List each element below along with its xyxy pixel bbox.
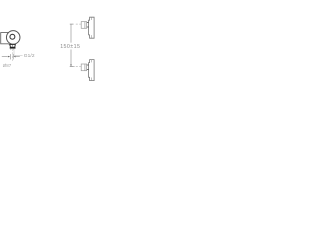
wall bracket rectangle xyxy=(1,33,10,44)
arrow pointing down at bottom centerline xyxy=(70,64,72,66)
stub center mark xyxy=(12,45,14,47)
centerline dashes xyxy=(70,23,74,25)
dimension line left segment xyxy=(2,56,8,58)
arrow pointing right xyxy=(8,56,10,58)
inner circle hub xyxy=(10,34,15,39)
centerline overshoot at bottom arrow xyxy=(70,66,74,68)
extension tick right xyxy=(12,54,14,59)
dimension line right segment xyxy=(16,56,20,58)
bottom centerline extra dashes xyxy=(73,66,75,68)
svg-text:150±15: 150±15 xyxy=(60,44,80,50)
leader line to G1/2 xyxy=(14,49,23,56)
outlet stub G1/2 xyxy=(10,44,15,47)
bracket-to-stub edge xyxy=(8,44,10,46)
extension tick left xyxy=(9,54,11,59)
vertical dimension line lower part xyxy=(70,50,72,67)
escutcheon / body profile xyxy=(89,17,95,38)
union nut xyxy=(81,22,86,29)
vertical dimension line upper part xyxy=(70,24,72,42)
inner facet lines of body xyxy=(90,17,92,20)
connector piece xyxy=(87,22,89,24)
svg-text:Ø87: Ø87 xyxy=(3,63,12,68)
stub bottom bar xyxy=(10,47,16,49)
dashed centerline below stub xyxy=(11,49,13,61)
big circle body xyxy=(6,31,20,45)
top union assembly xyxy=(70,17,94,38)
arrow pointing left xyxy=(13,56,15,58)
marks under stub xyxy=(9,48,12,50)
nut facet line xyxy=(84,22,86,29)
svg-text:G1/2: G1/2 xyxy=(24,53,35,59)
bottom union assembly xyxy=(70,60,94,81)
